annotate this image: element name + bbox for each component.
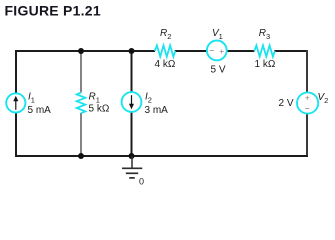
svg-text:−: − [305,104,310,114]
svg-text:1 kΩ: 1 kΩ [255,59,276,70]
svg-text:V2: V2 [318,92,329,105]
svg-text:3 mA: 3 mA [145,105,169,116]
wire R3 to top-right corner [274,50,308,52]
resistor R1 (vertical zigzag) [77,93,86,114]
svg-text:I1: I1 [28,92,35,105]
voltage source V1 [207,41,227,61]
resistor R3 (horizontal zigzag) [254,45,274,56]
svg-text:2 V: 2 V [279,98,294,109]
wire bottom horizontal [15,155,308,157]
svg-text:FIGURE P1.21: FIGURE P1.21 [5,3,101,19]
wire top-left horizontal [15,50,155,52]
svg-text:5 mA: 5 mA [28,105,52,116]
svg-text:4 kΩ: 4 kΩ [155,59,176,70]
ground [122,156,142,178]
svg-text:R2: R2 [160,28,171,41]
current source I2 [122,92,142,112]
node junction dot bottom of R1 [78,153,84,159]
current source I1 [6,93,25,112]
voltage source V2 [297,92,318,113]
svg-text:R1: R1 [89,92,100,105]
wire R2 to V1 [175,50,207,52]
svg-text:5 V: 5 V [211,65,226,76]
wire right vertical (through V2) [306,50,308,93]
svg-text:+: + [219,46,224,56]
svg-text:−: − [209,46,214,56]
wire left vertical (through I1) [15,50,17,93]
wire I2 branch top [131,51,133,92]
wire R1 branch bottom (gray) [80,113,82,156]
wire V1 to R3 [226,50,254,52]
svg-text:0: 0 [139,177,144,187]
wire R1 branch top (gray) [80,51,82,93]
svg-text:I2: I2 [145,92,152,105]
node junction dot top of R1 [78,48,84,54]
node junction dot top of I2 [129,48,135,54]
svg-text:V1: V1 [212,28,223,41]
svg-text:R3: R3 [259,28,270,41]
svg-text:5 kΩ: 5 kΩ [89,104,110,115]
node junction dot bottom of I2 / ground node [129,153,135,159]
svg-text:+: + [305,93,310,103]
wire I2 branch bottom [131,112,133,156]
resistor R2 (horizontal zigzag) [155,45,176,56]
